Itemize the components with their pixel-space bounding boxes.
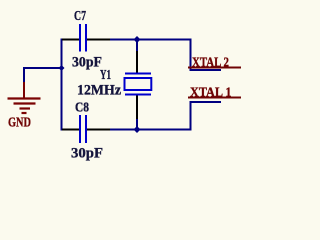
capacitor C7 (62, 24, 110, 52)
wire top net (61, 39, 192, 41)
node GND junction (59, 65, 65, 71)
crystal Y1 (125, 51, 152, 119)
wire bottom net (61, 129, 192, 131)
svg-text:C7: C7 (74, 8, 86, 23)
wire XTAL2 stub (190, 39, 222, 71)
wire left rail (61, 39, 63, 131)
svg-text:GND: GND (8, 116, 31, 131)
wire crystal top (136, 40, 138, 52)
svg-text:Y1: Y1 (100, 68, 111, 83)
net label XTAL 2 (188, 55, 241, 70)
svg-text:12MHz: 12MHz (77, 83, 121, 99)
node bottom junction (134, 126, 141, 133)
wire crystal bottom (136, 119, 138, 131)
svg-text:30pF: 30pF (72, 55, 102, 71)
wire GND branch (24, 68, 62, 82)
svg-text:C8: C8 (75, 99, 89, 114)
wire XTAL1 stub (190, 102, 222, 131)
ground (8, 82, 41, 131)
net label XTAL 1 (188, 85, 241, 100)
node top junction (134, 36, 141, 43)
capacitor C8 (62, 115, 110, 143)
svg-text:30pF: 30pF (71, 146, 103, 162)
